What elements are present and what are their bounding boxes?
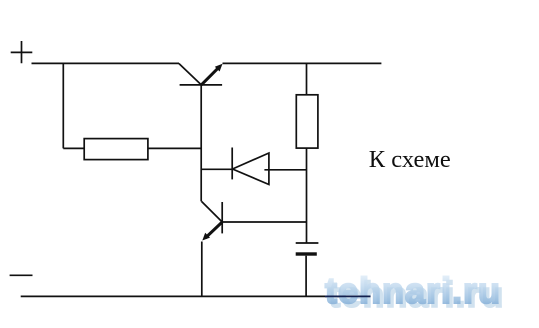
wire top rail right xyxy=(223,62,382,64)
resistor R2 xyxy=(296,95,318,148)
wire bottom rail xyxy=(21,295,371,297)
wire capacitor bottom lead xyxy=(305,256,307,297)
wire node to diode xyxy=(201,168,232,170)
diode VD1 xyxy=(232,148,269,185)
capacitor C1 xyxy=(296,243,319,256)
wire to R1 xyxy=(63,147,84,149)
resistor R1 xyxy=(84,139,148,160)
svg-text:К схеме: К схеме xyxy=(369,146,451,173)
wire R1 to node xyxy=(148,147,201,149)
plus terminal xyxy=(11,41,33,63)
wire R2 bottom lead xyxy=(306,148,308,243)
transistor Q2 xyxy=(202,201,223,240)
wire drop to R2 xyxy=(306,63,308,94)
minus terminal xyxy=(10,274,33,276)
wire bottom rail segment visible through watermark xyxy=(325,295,371,297)
svg-text:tehnari.ru: tehnari.ru xyxy=(325,270,501,311)
wire main vertical xyxy=(200,85,202,201)
wire left drop xyxy=(62,63,64,148)
transistor Q1 xyxy=(179,64,223,85)
watermark tehnari.ru xyxy=(325,270,505,315)
wire Q2 emitter vertical xyxy=(201,242,203,297)
wire Q2 base xyxy=(222,221,306,223)
wire top rail left xyxy=(32,62,180,64)
wire diode to right rail xyxy=(264,169,306,171)
